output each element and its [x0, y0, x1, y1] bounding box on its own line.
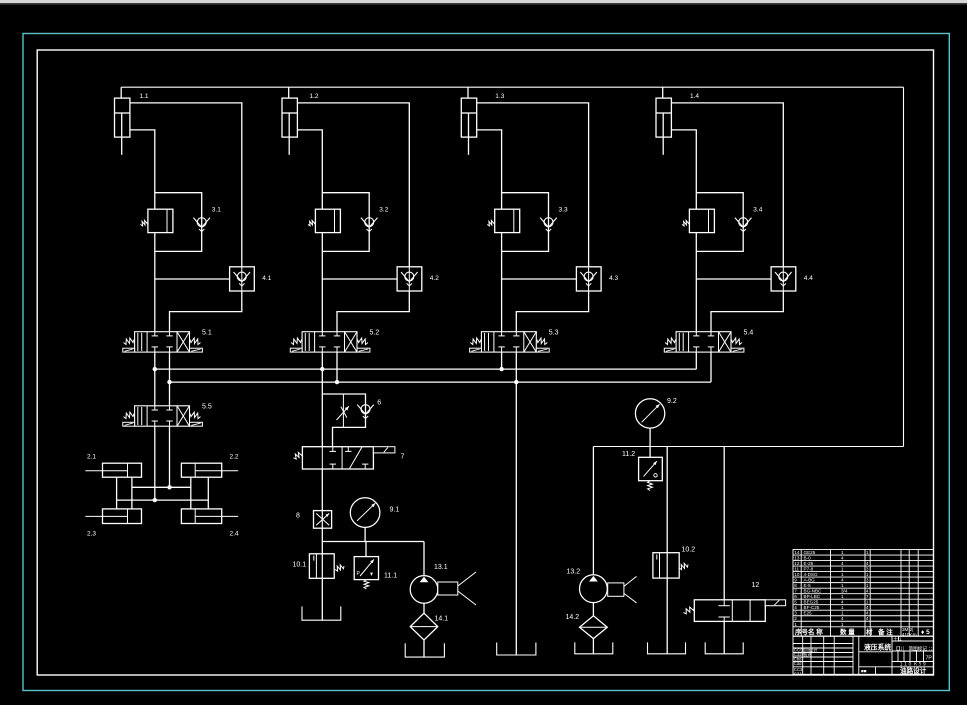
svg-text:3: 3 — [794, 611, 797, 616]
svg-text:1: 1 — [841, 611, 844, 616]
svg-text:7: 7 — [794, 589, 797, 594]
directional valve 5.3 — [481, 332, 536, 352]
wire valve 5.5 to clamp manifold left — [154, 426, 156, 500]
svg-text:4: 4 — [841, 600, 844, 605]
svg-text:2.4: 2.4 — [230, 531, 239, 538]
svg-text:4.4: 4.4 — [804, 275, 813, 282]
svg-text:1.1: 1.1 — [140, 93, 149, 100]
wire cylinder 1.3 lower port — [477, 130, 502, 209]
cylinder 2.2 — [181, 463, 221, 477]
check valve 6 — [361, 405, 370, 414]
wire right vertical bus — [903, 87, 905, 446]
wire valve 5.2 port P to upper bus — [321, 352, 323, 369]
wire clamp link left pair — [116, 477, 118, 509]
check valve 4.1 — [230, 267, 255, 291]
svg-text:5.1: 5.1 — [202, 330, 212, 337]
svg-text:10.2: 10.2 — [682, 547, 696, 554]
wire junction to check valve 4.4 — [696, 278, 771, 280]
node junction dots on buses — [153, 367, 157, 371]
pump 13.1 — [410, 576, 438, 604]
svg-text:5: 5 — [794, 600, 797, 605]
valve 12 pilot tab — [765, 600, 785, 606]
wire through valve 12 to tank — [723, 447, 725, 654]
svg-text:3.1: 3.1 — [212, 207, 221, 214]
cylinder 1.1 — [115, 98, 130, 137]
svg-text:E25: E25 — [804, 611, 813, 616]
title block lower texts — [794, 635, 935, 676]
check valve 3.4 — [739, 218, 748, 227]
svg-text:备 注: 备 注 — [877, 627, 893, 636]
svg-text:2.2: 2.2 — [230, 454, 239, 461]
svg-text:4.2: 4.2 — [430, 275, 439, 282]
wire supply entry branch 3 — [467, 87, 469, 98]
svg-text:14: 14 — [794, 550, 800, 555]
svg-text:BG-NBC: BG-NBC — [804, 589, 823, 594]
top window strip — [0, 0, 967, 3]
directional valve 5.1 — [135, 332, 190, 352]
svg-text:数 量: 数 量 — [840, 627, 855, 636]
valve 7 pilot tab — [373, 447, 395, 453]
svg-text:4: 4 — [841, 556, 844, 561]
svg-text:♦ 5: ♦ 5 — [921, 629, 930, 636]
wire valve 5.1 port T to lower bus — [169, 352, 171, 382]
svg-text:3.2: 3.2 — [379, 207, 388, 214]
tank below 14.2 — [575, 642, 613, 653]
wire gauge 9.2 stem — [649, 428, 651, 446]
tank below return line — [497, 643, 536, 656]
svg-text:1: 1 — [794, 622, 797, 627]
svg-text:8: 8 — [794, 583, 797, 588]
svg-text:1.3: 1.3 — [495, 93, 504, 100]
svg-text:7P: 7P — [926, 656, 933, 662]
relief valve 10.1 — [309, 554, 334, 579]
svg-text:GE25: GE25 — [804, 550, 816, 555]
svg-text:11.1: 11.1 — [384, 573, 397, 580]
svg-text:5.2: 5.2 — [370, 330, 380, 337]
wire valve 5.5 to clamp manifold right — [169, 426, 171, 487]
svg-text:3/4: 3/4 — [841, 589, 848, 594]
svg-text:1.4: 1.4 — [690, 93, 699, 100]
directional valve 5.4 — [676, 332, 731, 352]
directional valve 12 — [694, 600, 765, 622]
wire supply entry branch 4 — [662, 87, 664, 98]
svg-text:BF-C25: BF-C25 — [804, 605, 820, 610]
svg-text:6: 6 — [794, 594, 797, 599]
svg-text:E-25: E-25 — [804, 561, 814, 566]
svg-text:1: 1 — [841, 572, 844, 577]
check valve 4.3 — [576, 267, 601, 291]
svg-text:【】）） 简图标记 ：；: 【】）） 简图标记 ：； — [894, 645, 936, 652]
svg-text:3.3: 3.3 — [559, 207, 568, 214]
wire branch 4 main line — [695, 233, 697, 332]
wire top supply bus — [121, 86, 903, 88]
svg-text:1: 1 — [841, 622, 844, 627]
directional valve 7 — [302, 447, 373, 469]
counterbalance valve 3.3 — [495, 209, 520, 232]
wire branch 2 main line — [321, 233, 323, 332]
filter 14.2 — [580, 616, 608, 639]
svg-text:十.1: 十.1 — [894, 635, 903, 642]
cylinder 1.4 — [656, 98, 671, 137]
wire junction to check valve 4.1 — [155, 278, 230, 280]
wire junction to check valve 4.2 — [322, 278, 397, 280]
node clamp junctions — [167, 485, 171, 489]
svg-text:材: 材 — [865, 627, 873, 636]
wire valve 5.4 port T to lower bus — [710, 352, 712, 382]
tank below 10.2 — [648, 642, 686, 653]
wire supply entry branch 1 — [120, 87, 122, 98]
wire cylinder 1.1 lower port — [130, 130, 155, 209]
svg-text:4: 4 — [841, 578, 844, 583]
wire clamp upper pipe — [132, 486, 191, 488]
tank below valve 12 — [705, 642, 743, 653]
filter 14.1 — [410, 613, 438, 640]
wire cylinder 1.4 lower port — [671, 130, 696, 209]
svg-text:14.2: 14.2 — [566, 614, 580, 621]
wire gauge 9.1 stem — [364, 527, 366, 541]
wire valve 5.1 port P to upper bus — [154, 352, 156, 369]
svg-text:名 称: 名 称 — [808, 627, 823, 636]
check valve 3.2 — [365, 218, 374, 227]
wire filter 14.1 to tank — [423, 640, 425, 657]
wire filter 14.2 to tank — [592, 639, 594, 654]
pilot valve 11.1 — [365, 542, 367, 557]
wire lower bus to valve 5.5 — [169, 382, 171, 406]
valve 7 spring — [294, 452, 303, 459]
directional valve 5.5 — [135, 406, 190, 426]
svg-text:１１０ Ｋ５９: １１０ Ｋ５９ — [899, 662, 927, 667]
wire return through relief 10.2 to tank — [666, 447, 668, 654]
svg-text:10.1: 10.1 — [293, 562, 307, 569]
svg-text:Cdd: Cdd — [794, 661, 802, 666]
check valve 4.4 — [771, 267, 796, 291]
svg-text:8: 8 — [296, 513, 300, 520]
svg-text:5.5: 5.5 — [202, 404, 212, 411]
svg-text:2.3: 2.3 — [87, 531, 96, 538]
wire pump 13.1 suction — [423, 603, 425, 613]
wire cylinder 1.1 upper port — [130, 103, 242, 267]
svg-text:5.3: 5.3 — [549, 330, 559, 337]
check valve 3.1 — [197, 218, 206, 227]
wire throttle 8 to pump bus — [321, 528, 323, 554]
wire cylinder 1.4 upper port — [671, 103, 783, 267]
wire cylinder 1.3 upper port — [477, 103, 589, 267]
svg-text:油路设计: 油路设计 — [900, 666, 927, 675]
wire supply entry branch 2 — [288, 87, 290, 98]
wire bypass loop 3.2 — [322, 193, 369, 252]
svg-text:1: 1 — [841, 567, 844, 572]
wire branch 3 main line — [501, 233, 503, 332]
wire left pump bus — [322, 541, 424, 543]
wire check valve 4.1 to valve port B — [170, 291, 242, 332]
wire clamp lower pipe — [117, 499, 209, 501]
wire branch 1 main line — [154, 233, 156, 332]
svg-text:11.2: 11.2 — [622, 451, 635, 458]
wire valve 5.3 port T to lower bus — [515, 352, 517, 382]
motor coupling 13.1 — [438, 582, 458, 595]
svg-text:BEG25: BEG25 — [804, 600, 819, 605]
svg-text:BP-LBC: BP-LBC — [804, 594, 821, 599]
throttle 8 — [314, 511, 332, 529]
svg-text:2: 2 — [794, 616, 797, 621]
svg-text:2.1: 2.1 — [87, 454, 96, 461]
wire pump 13.2 riser — [592, 447, 594, 575]
svg-text:4-DSG: 4-DSG — [804, 572, 818, 577]
wire upper bus to valve 5.5 — [154, 369, 156, 406]
svg-text:13.2: 13.2 — [567, 569, 581, 576]
svg-text:6: 6 — [377, 400, 381, 407]
valve 12 spring — [684, 607, 695, 614]
counterbalance valve 3.1 — [148, 209, 173, 232]
svg-text:11: 11 — [794, 567, 799, 572]
wire main line branch 2 to valve 7 — [321, 369, 323, 447]
svg-text:12: 12 — [752, 582, 760, 589]
svg-text:4.3: 4.3 — [609, 275, 618, 282]
wire check valve 4.4 to valve port B — [711, 291, 783, 332]
title block parts list table — [793, 550, 934, 637]
svg-text:C3J: C3J — [794, 671, 801, 676]
wire valve 5.2 port T to lower bus — [336, 352, 338, 382]
svg-text:1.2: 1.2 — [310, 93, 319, 100]
pilot valve 11.2 — [649, 447, 651, 458]
check valve 4.2 — [397, 267, 422, 291]
svg-text:9.2: 9.2 — [667, 398, 677, 405]
wire cylinder 1.2 upper port — [297, 103, 409, 267]
pressure gauge 9.1 — [350, 498, 380, 528]
wire relief 10.1 to tank — [321, 578, 323, 620]
svg-text:13: 13 — [794, 556, 800, 561]
svg-text:10: 10 — [794, 572, 800, 577]
motor coupling 13.2 — [608, 583, 624, 596]
svg-text:1: 1 — [841, 550, 844, 555]
wire upper pilot bus — [155, 368, 697, 370]
relief valve 10.2 — [653, 553, 679, 578]
wire return line to tank (branch 3) — [515, 382, 517, 655]
wire bypass loop 3.1 — [155, 193, 202, 252]
wire check valve 4.3 to valve port B — [516, 291, 588, 332]
pump 13.2 — [580, 575, 608, 603]
svg-text:B-0: B-0 — [804, 556, 812, 561]
cylinder 1.3 — [461, 98, 476, 137]
svg-text:序号: 序号 — [794, 627, 809, 636]
check valve 3.3 — [544, 218, 553, 227]
cylinder 2.1 — [103, 463, 142, 477]
directional valve 5.2 — [302, 332, 357, 352]
svg-text:9.1: 9.1 — [390, 507, 400, 514]
svg-text:E-5: E-5 — [804, 583, 812, 588]
wire valve 5.4 port P to upper bus — [695, 352, 697, 369]
svg-text:1: 1 — [841, 594, 844, 599]
svg-text:9: 9 — [794, 578, 797, 583]
wire bypass loop 3.3 — [502, 193, 549, 252]
counterbalance valve 3.2 — [315, 209, 340, 232]
svg-text:P7-8: P7-8 — [804, 567, 814, 572]
cylinder 2.4 — [181, 509, 221, 524]
wire junction to check valve 4.3 — [502, 278, 577, 280]
wire valve 5.3 port P to upper bus — [501, 352, 503, 369]
cylinder 2.3 — [103, 509, 142, 524]
counterbalance valve 3.4 — [689, 209, 714, 232]
wire check valve 4.2 to valve port B — [337, 291, 409, 332]
title block lower grid — [793, 636, 934, 674]
svg-text:4: 4 — [841, 616, 844, 621]
wire pump 13.1 riser — [423, 542, 425, 576]
svg-text:4.1: 4.1 — [262, 275, 271, 282]
wire pump 13.2 suction — [592, 603, 594, 616]
svg-text:液压系统: 液压系统 — [864, 643, 891, 652]
parts list row texts — [794, 550, 930, 637]
svg-text:A-BG: A-BG — [804, 578, 816, 583]
svg-text:12: 12 — [794, 561, 800, 566]
svg-text:13.1: 13.1 — [434, 564, 448, 571]
cylinder 1.2 — [282, 98, 297, 137]
svg-text:1: 1 — [841, 583, 844, 588]
wire clamp link right pair — [190, 477, 192, 509]
wire pump pressure bus (right group) — [593, 446, 903, 448]
pressure gauge 9.2 — [635, 399, 664, 428]
wire flow control loop 6 — [322, 394, 365, 447]
svg-text:3.4: 3.4 — [753, 207, 762, 214]
wire cylinder 1.2 lower port — [297, 130, 322, 209]
svg-text:7: 7 — [401, 454, 405, 461]
throttle valve 6 (adjustable) — [342, 394, 344, 427]
svg-text:14.1: 14.1 — [435, 616, 449, 623]
svg-text:4: 4 — [794, 605, 797, 610]
svg-text:1: 1 — [841, 605, 844, 610]
wire bypass loop 3.4 — [696, 193, 743, 252]
svg-text:■■: ■■ — [861, 669, 867, 674]
tank below 14.1 — [405, 643, 444, 657]
svg-text:5.4: 5.4 — [744, 330, 754, 337]
tank below 10.1 — [302, 606, 341, 620]
wire lower pilot bus — [170, 381, 712, 383]
svg-text:4: 4 — [841, 561, 844, 566]
wire valve 7 to throttle 8 — [321, 469, 323, 511]
